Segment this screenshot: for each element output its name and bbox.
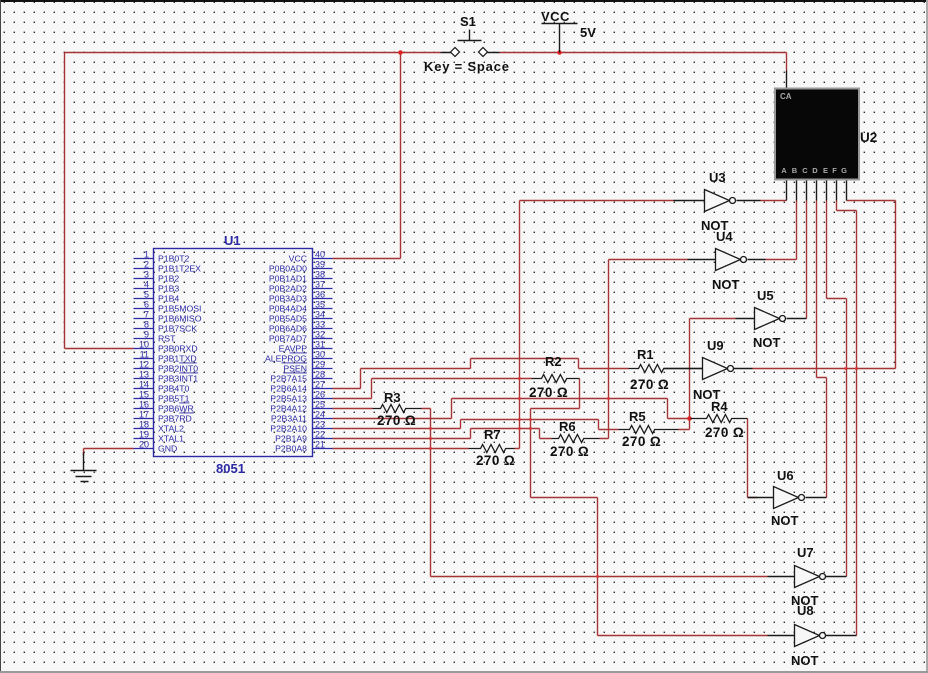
svg-text:P2B5A13: P2B5A13 (270, 394, 307, 404)
svg-text:P1B4: P1B4 (158, 294, 179, 304)
svg-text:4: 4 (144, 280, 149, 290)
svg-text:270 Ω: 270 Ω (476, 453, 515, 468)
svg-text:XTAL1: XTAL1 (158, 434, 184, 444)
svg-text:1: 1 (144, 250, 149, 260)
svg-text:U6: U6 (777, 468, 794, 483)
svg-text:5: 5 (144, 290, 149, 300)
svg-text:F: F (832, 166, 837, 175)
svg-text:270 Ω: 270 Ω (705, 425, 744, 440)
svg-text:18: 18 (139, 420, 149, 430)
svg-text:26: 26 (315, 390, 325, 400)
svg-text:P0B1AD1: P0B1AD1 (269, 274, 307, 284)
svg-text:37: 37 (315, 280, 325, 290)
svg-text:ALEPROG: ALEPROG (265, 354, 307, 364)
svg-text:CA: CA (780, 92, 792, 101)
svg-text:P1B1T2EX: P1B1T2EX (158, 264, 201, 274)
svg-text:S1: S1 (460, 14, 476, 29)
svg-text:PSEN: PSEN (283, 364, 307, 374)
svg-text:R3: R3 (384, 390, 401, 405)
svg-text:P2B1A9: P2B1A9 (275, 434, 307, 444)
svg-text:270 Ω: 270 Ω (630, 377, 669, 392)
svg-text:13: 13 (139, 370, 149, 380)
svg-text:30: 30 (315, 350, 325, 360)
svg-text:P0B7AD7: P0B7AD7 (269, 334, 307, 344)
svg-text:U8: U8 (797, 603, 814, 618)
svg-text:29: 29 (315, 360, 325, 370)
svg-text:22: 22 (315, 430, 325, 440)
svg-text:C: C (802, 166, 808, 175)
svg-text:3: 3 (144, 270, 149, 280)
svg-text:39: 39 (315, 260, 325, 270)
svg-text:E: E (823, 166, 828, 175)
svg-text:U4: U4 (716, 229, 733, 244)
svg-text:16: 16 (139, 400, 149, 410)
svg-text:27: 27 (315, 380, 325, 390)
svg-text:24: 24 (315, 410, 325, 420)
svg-text:21: 21 (315, 440, 325, 450)
svg-text:P3B3INT1: P3B3INT1 (158, 374, 198, 384)
svg-text:P3B2INT0: P3B2INT0 (158, 364, 198, 374)
svg-text:36: 36 (315, 290, 325, 300)
svg-text:32: 32 (315, 330, 325, 340)
svg-text:14: 14 (139, 380, 149, 390)
svg-text:P1B0T2: P1B0T2 (158, 254, 190, 264)
svg-text:40: 40 (315, 250, 325, 260)
svg-text:P1B6MISO: P1B6MISO (158, 314, 202, 324)
svg-text:9: 9 (144, 330, 149, 340)
svg-text:U9: U9 (707, 338, 724, 353)
svg-text:12: 12 (139, 360, 149, 370)
svg-text:5V: 5V (580, 25, 596, 40)
svg-text:P3B7RD: P3B7RD (158, 414, 192, 424)
svg-text:7: 7 (144, 310, 149, 320)
svg-text:33: 33 (315, 320, 325, 330)
svg-text:270 Ω: 270 Ω (529, 385, 568, 400)
svg-text:17: 17 (139, 410, 149, 420)
svg-text:R7: R7 (484, 427, 501, 442)
svg-text:U3: U3 (709, 170, 726, 185)
svg-text:XTAL2: XTAL2 (158, 424, 184, 434)
svg-text:15: 15 (139, 390, 149, 400)
svg-text:31: 31 (315, 340, 325, 350)
svg-text:U5: U5 (757, 288, 774, 303)
svg-text:P2B3A11: P2B3A11 (271, 414, 307, 424)
svg-text:RST: RST (158, 334, 176, 344)
svg-text:6: 6 (144, 300, 149, 310)
svg-text:P0B4AD4: P0B4AD4 (269, 304, 307, 314)
svg-text:23: 23 (315, 420, 325, 430)
svg-text:P0B5AD5: P0B5AD5 (269, 314, 307, 324)
svg-text:270 Ω: 270 Ω (622, 434, 661, 449)
svg-text:VCC: VCC (289, 254, 307, 264)
svg-text:P1B5MOSI: P1B5MOSI (158, 304, 201, 314)
svg-text:28: 28 (315, 370, 325, 380)
svg-text:G: G (841, 166, 847, 175)
svg-text:P3B1TXD: P3B1TXD (158, 354, 197, 364)
svg-text:P3B4T0: P3B4T0 (158, 384, 190, 394)
svg-text:NOT: NOT (753, 335, 781, 350)
svg-text:2: 2 (144, 260, 149, 270)
svg-text:D: D (812, 166, 818, 175)
svg-text:P0B2AD2: P0B2AD2 (269, 284, 307, 294)
svg-text:P3B6WR: P3B6WR (158, 404, 194, 414)
svg-text:VCC: VCC (541, 9, 570, 24)
svg-text:11: 11 (140, 350, 149, 360)
svg-text:GND: GND (158, 444, 177, 454)
svg-text:P2B6A14: P2B6A14 (270, 384, 307, 394)
svg-text:34: 34 (315, 310, 325, 320)
svg-text:10: 10 (139, 340, 149, 350)
svg-text:8051: 8051 (216, 461, 245, 476)
svg-text:R6: R6 (559, 419, 576, 434)
svg-text:R5: R5 (629, 409, 646, 424)
svg-text:270 Ω: 270 Ω (377, 413, 416, 428)
svg-text:P1B2: P1B2 (158, 274, 179, 284)
svg-text:R2: R2 (545, 354, 562, 369)
svg-text:P0B3AD3: P0B3AD3 (269, 294, 307, 304)
svg-text:NOT: NOT (771, 513, 799, 528)
svg-text:P3B0RXD: P3B0RXD (158, 344, 198, 354)
svg-text:NOT: NOT (712, 277, 740, 292)
svg-text:270 Ω: 270 Ω (550, 444, 589, 459)
svg-text:P2B4A12: P2B4A12 (270, 404, 307, 414)
svg-text:U2: U2 (860, 130, 877, 145)
svg-text:U7: U7 (797, 545, 814, 560)
svg-text:B: B (792, 166, 798, 175)
svg-text:P1B3: P1B3 (158, 284, 179, 294)
svg-text:25: 25 (315, 400, 325, 410)
svg-text:EAVPP: EAVPP (279, 344, 308, 354)
svg-text:R1: R1 (637, 347, 654, 362)
svg-text:R4: R4 (711, 399, 728, 414)
svg-text:P0B6AD6: P0B6AD6 (269, 324, 307, 334)
svg-text:NOT: NOT (791, 653, 819, 668)
svg-text:38: 38 (315, 270, 325, 280)
svg-text:P1B7SCK: P1B7SCK (158, 324, 197, 334)
svg-text:Key = Space: Key = Space (424, 59, 510, 74)
svg-text:20: 20 (139, 440, 149, 450)
svg-text:P3B5T1: P3B5T1 (158, 394, 190, 404)
svg-text:U1: U1 (224, 233, 241, 248)
svg-text:P2B2A10: P2B2A10 (270, 424, 307, 434)
svg-text:P2B7A15: P2B7A15 (270, 374, 307, 384)
svg-text:P0B0AD0: P0B0AD0 (269, 264, 307, 274)
svg-text:P2B0A8: P2B0A8 (275, 444, 307, 454)
svg-text:19: 19 (139, 430, 149, 440)
svg-text:35: 35 (315, 300, 325, 310)
svg-text:8: 8 (144, 320, 149, 330)
svg-text:A: A (781, 166, 787, 175)
